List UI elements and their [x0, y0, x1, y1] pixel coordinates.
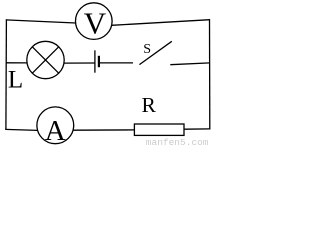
wire ammeter to resistor — [73, 129, 134, 131]
svg-text:R: R — [142, 93, 157, 117]
wire middle left — [6, 62, 27, 64]
svg-text:V: V — [84, 6, 107, 41]
wire top left to voltmeter — [6, 20, 76, 23]
switch S blade — [139, 41, 171, 64]
wire voltmeter to top right — [112, 20, 210, 26]
wire lamp to battery — [64, 62, 95, 64]
battery short plate — [98, 56, 100, 67]
wire left vertical — [5, 19, 8, 130]
svg-text:L: L — [8, 67, 23, 94]
svg-text:S: S — [143, 42, 151, 57]
svg-text:A: A — [45, 115, 66, 147]
svg-text:manfen5.com: manfen5.com — [146, 137, 209, 147]
battery long plate — [94, 50, 96, 72]
wire right vertical — [209, 19, 211, 129]
lamp L circle — [27, 41, 64, 78]
ammeter U2 circle — [37, 107, 74, 144]
wire resistor to right — [185, 128, 211, 130]
wire switch to right — [170, 63, 210, 65]
wire bottom left — [5, 129, 37, 130]
resistor R box — [134, 124, 184, 135]
voltmeter U1 circle — [76, 3, 113, 40]
lamp L cross — [32, 47, 58, 73]
wire battery to switch — [100, 62, 133, 64]
